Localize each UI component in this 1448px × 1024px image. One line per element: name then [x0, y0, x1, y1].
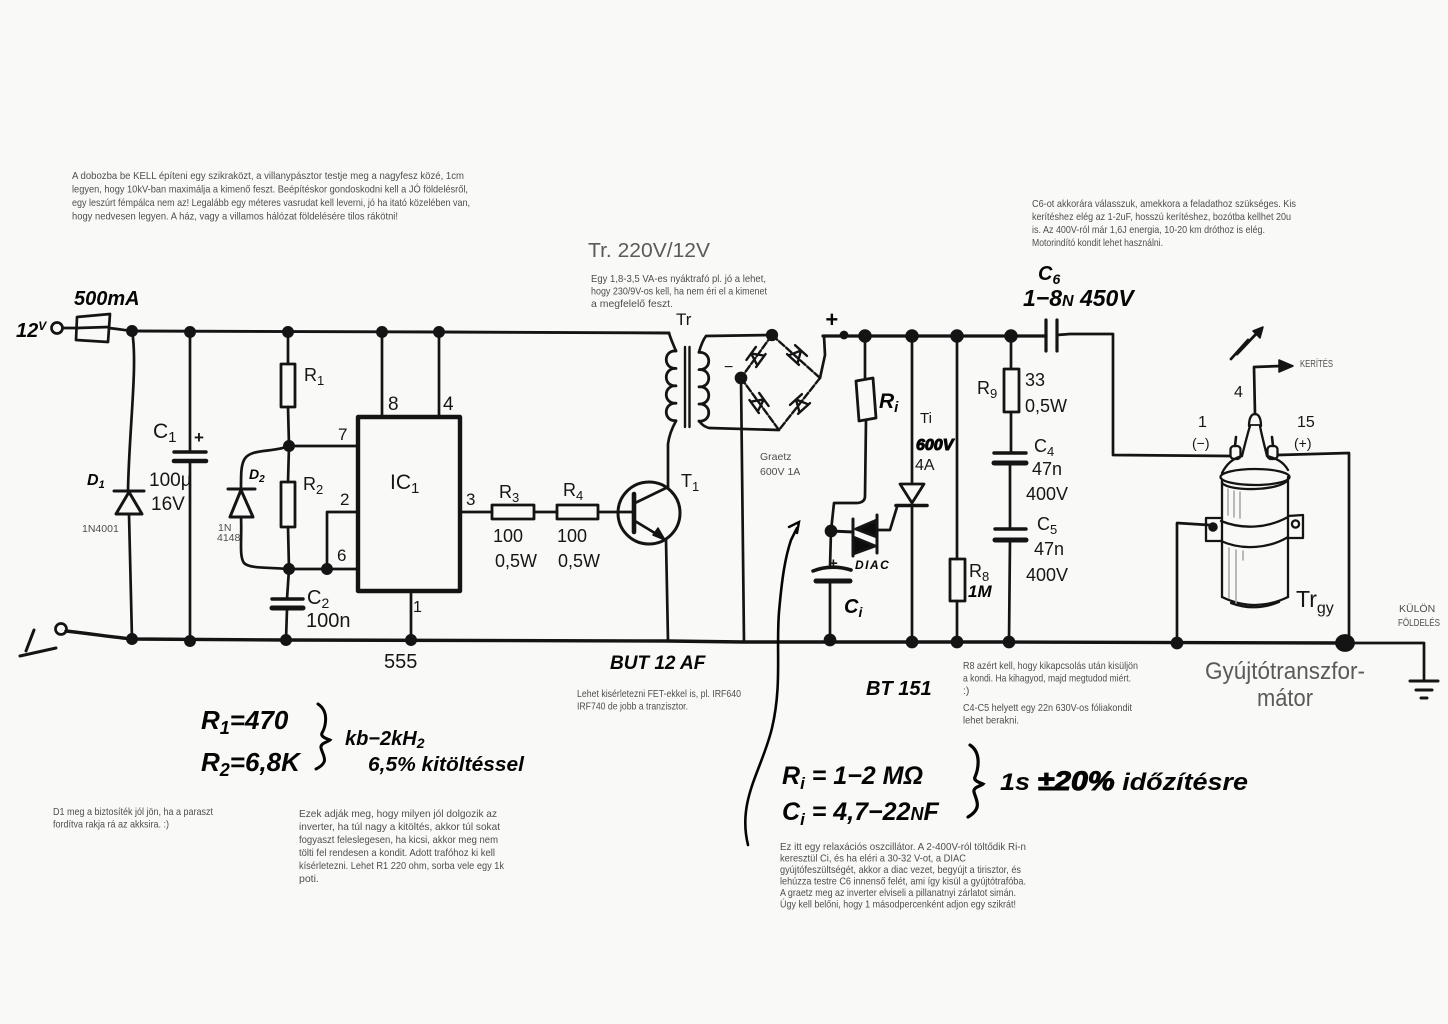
coil terminal stud right	[1272, 437, 1273, 446]
label Gyújtótranszformátor	[1205, 658, 1365, 712]
note: transformer note	[591, 273, 767, 310]
coil dome	[1222, 456, 1288, 473]
transformer Tr secondary coil	[699, 352, 709, 421]
wire C5 bottom lead	[1009, 541, 1010, 642]
node pin2/pin6 junction	[322, 564, 331, 573]
wire T1 collector to transformer	[668, 421, 676, 487]
wire fuse to node A	[109, 328, 132, 331]
wire R9 to C4	[1010, 412, 1013, 452]
capacitor C5	[995, 529, 1026, 540]
svg-text:KERÍTÉS: KERÍTÉS	[1300, 357, 1333, 370]
svg-text:(+): (+)	[1294, 435, 1312, 451]
wire coil pin15 to ground bus	[1278, 453, 1349, 642]
svg-text:15: 15	[1297, 414, 1315, 431]
svg-text:100n: 100n	[306, 610, 351, 632]
node C1 bottom	[185, 636, 194, 645]
svg-text:R8 azért kell, hogy kikapcsolá: R8 azért kell, hogy kikapcsolás után kis…	[963, 660, 1138, 672]
svg-text:555: 555	[384, 651, 417, 673]
svg-text::): :)	[963, 685, 969, 697]
resistor R1	[281, 364, 295, 407]
node bridge minus corner	[736, 373, 746, 383]
op-amp U1: IC1 555 box	[358, 417, 460, 591]
svg-text:Ti: Ti	[920, 410, 932, 427]
coil clamp left ear	[1206, 518, 1221, 541]
svg-text:poti.: poti.	[299, 873, 319, 885]
pointer curve to oscillator	[745, 528, 797, 845]
diode D2 1N4148	[228, 489, 255, 517]
wire coil hv tower to fence arrow	[1254, 366, 1281, 414]
svg-text:A graetz meg az inverter elvis: A graetz meg az inverter elviseli a pill…	[780, 887, 1016, 899]
svg-text:4: 4	[443, 394, 454, 415]
node ground bus left	[127, 634, 136, 643]
diode D1	[114, 491, 144, 514]
svg-text:100: 100	[493, 526, 523, 546]
node pin1 bottom	[406, 635, 415, 644]
svg-text:400V: 400V	[1026, 484, 1068, 504]
svg-text:+: +	[825, 307, 838, 332]
wire R9 top lead	[1010, 336, 1013, 369]
svg-text:A dobozba be KELL építeni egy: A dobozba be KELL építeni egy szikraközt…	[72, 170, 464, 182]
thyristor Ti	[896, 484, 927, 506]
resistor R9	[1004, 369, 1019, 412]
coil hv tower cone	[1242, 426, 1267, 456]
coil clamp band	[1221, 517, 1288, 527]
bridge diode bottom-left	[749, 393, 768, 413]
svg-text:1N4001: 1N4001	[82, 523, 119, 535]
svg-text:legyen, hogy 10kV-ban maximálj: legyen, hogy 10kV-ban maximálja a kimenő…	[72, 183, 468, 196]
svg-text:4148: 4148	[217, 532, 241, 544]
wire DIAC to Ti gate	[877, 507, 897, 530]
node R9 top	[1006, 331, 1017, 342]
svg-text:Tr. 220V/12V: Tr. 220V/12V	[588, 240, 711, 262]
svg-text:FÖLDELÉS: FÖLDELÉS	[1398, 616, 1440, 629]
svg-text:R2=6,8K: R2=6,8K	[201, 747, 302, 780]
node clamp bus junction	[1172, 638, 1182, 648]
node DIAC left junction	[826, 526, 836, 536]
wire C2 top lead	[287, 569, 289, 599]
svg-text:−: −	[724, 359, 733, 376]
coil top rim	[1221, 469, 1290, 485]
bridge rectifier diamond edges	[741, 335, 820, 430]
svg-text:(−): (−)	[1192, 435, 1210, 451]
capacitor C4	[994, 453, 1026, 463]
transistor T1 emitter arrowhead	[653, 528, 665, 540]
spark lightning symbol	[1231, 327, 1263, 359]
svg-text:lehúzza testre C6 innenső felé: lehúzza testre C6 innenső felét, ami így…	[780, 876, 1026, 888]
capacitor Ci	[813, 567, 851, 581]
svg-text:gyújtófeszültségét, akkor a di: gyújtófeszültségét, akkor a diac vezet, …	[780, 864, 1021, 876]
svg-text:47n: 47n	[1032, 459, 1062, 479]
bridge diode top-left	[746, 347, 765, 367]
resistor R4	[557, 505, 598, 519]
wire D1 branch lower	[129, 514, 132, 639]
wire pin 3	[460, 511, 492, 514]
node fuse junction	[127, 326, 136, 335]
note: C6 sizing note	[1032, 198, 1296, 249]
wire C6 to coil pin1	[1057, 334, 1230, 456]
svg-text:Egy 1,8-3,5 VA-es nyáktrafó pl: Egy 1,8-3,5 VA-es nyáktrafó pl. jó a leh…	[591, 273, 766, 285]
svg-text:100µ: 100µ	[149, 470, 192, 491]
wire top bus right section	[823, 334, 1046, 337]
capacitor C1	[174, 452, 206, 461]
wire D1 branch upper	[128, 331, 134, 491]
ground symbol left	[20, 630, 56, 656]
svg-text:33: 33	[1025, 370, 1045, 390]
note: relaxation oscillator note	[780, 841, 1026, 911]
svg-text:1s ±20% időzítésre: 1s ±20% időzítésre	[1000, 766, 1248, 796]
wire blob to right ground	[1352, 643, 1424, 681]
wire C2 bottom lead	[286, 609, 287, 640]
wire Ci top lead	[830, 531, 831, 567]
svg-text:1: 1	[413, 599, 422, 616]
note: D1 fuse note	[53, 806, 213, 831]
label KÜLÖN FÖLDELÉS	[1398, 603, 1440, 629]
svg-text:0,5W: 0,5W	[495, 551, 537, 571]
wire C1 branch upper	[189, 332, 192, 452]
transistor T1 emitter stroke	[635, 521, 663, 538]
resistor R2	[281, 482, 295, 527]
diac D3	[831, 515, 877, 556]
svg-text:0,5W: 0,5W	[558, 551, 600, 571]
svg-text:C6-ot akkorára válasszuk, amek: C6-ot akkorára válasszuk, amekkora a fel…	[1032, 198, 1296, 210]
note: duty-cycle note	[299, 808, 505, 885]
svg-text:fogyaszt feleslegesen, ha kics: fogyaszt feleslegesen, ha kicsi, akkor m…	[299, 834, 498, 846]
svg-text:Graetz: Graetz	[760, 451, 792, 463]
wire clamp to ground bus	[1177, 523, 1209, 643]
note: top-left build note	[72, 170, 470, 223]
svg-text:BT 151: BT 151	[866, 678, 932, 700]
wire secondary top to bridge	[699, 335, 772, 352]
svg-text:Úgy kell belőni, hogy 1 másodp: Úgy kell belőni, hogy 1 másodpercenként …	[780, 898, 1016, 911]
svg-text:6: 6	[337, 546, 346, 565]
svg-text:+: +	[194, 428, 204, 447]
node bridge top corner	[767, 330, 777, 340]
brace left annotation	[316, 704, 330, 769]
coil clamp right ear	[1288, 515, 1303, 538]
svg-text:kerítéshez elég az 1-2uF, hoss: kerítéshez elég az 1-2uF, hosszú kerítés…	[1032, 211, 1291, 223]
wire Ri to DIAC node	[831, 420, 866, 531]
wire D2 upper hook	[241, 446, 289, 489]
wire Ti cathode to ground bus	[911, 506, 914, 642]
wire R2 bottom lead	[288, 527, 289, 569]
bridge diode bottom-right	[790, 394, 810, 414]
bridge diode top-right	[787, 345, 807, 365]
svg-text:D1 meg a biztosíték jól jön, h: D1 meg a biztosíték jól jön, ha a parasz…	[53, 806, 213, 818]
svg-text:a kondi. Ha kihagyod, majd meg: a kondi. Ha kihagyod, majd megtudod miér…	[963, 673, 1131, 685]
svg-text:hogy 230/9V-os kell, ha nem ér: hogy 230/9V-os kell, ha nem éri el a kim…	[591, 286, 767, 298]
node ground terminal	[56, 624, 67, 635]
wire C1 branch lower	[189, 461, 192, 641]
wire R4 to T1 base	[598, 511, 634, 514]
wire bridge minus to ground bus	[741, 378, 744, 642]
node plus junction	[841, 332, 847, 338]
wire pin 7	[289, 445, 358, 448]
svg-text:Motorindító kondit lehet haszn: Motorindító kondit lehet használni.	[1032, 237, 1163, 249]
wire bottom ground bus	[66, 631, 1345, 643]
svg-text:Ez itt egy relaxációs oszcillá: Ez itt egy relaxációs oszcillátor. A 2-4…	[780, 841, 1026, 853]
wire D2 lower hook	[241, 517, 287, 569]
ignition transformer Trgy	[1206, 414, 1303, 607]
wire R3 to R4	[534, 511, 557, 514]
node pin6/R2 junction	[284, 564, 293, 573]
label Graetz 600V 1A	[760, 451, 800, 478]
svg-text:hogy nedvesen legyen. A ház, v: hogy nedvesen legyen. A ház, vagy a vill…	[72, 211, 398, 223]
resistor R3	[492, 505, 534, 519]
wire bridge plus riser	[820, 336, 825, 378]
pointer arrowhead	[789, 522, 799, 533]
svg-text:keresztül Ci, és ha eléri a 30: keresztül Ci, és ha eléri a 30-32 V-ot, …	[780, 853, 966, 865]
wire C4 to C5	[1009, 464, 1012, 528]
transistor T1 collector stroke	[635, 487, 668, 503]
svg-text:+: +	[829, 555, 838, 572]
svg-text:kb−2kH2: kb−2kH2	[345, 728, 425, 751]
node C5 bottom	[1004, 637, 1014, 647]
wire pin 2	[327, 512, 358, 569]
resistor R8	[950, 559, 965, 601]
node Ti bottom	[907, 637, 917, 647]
coil body	[1222, 477, 1288, 597]
svg-text:mátor: mátor	[1257, 685, 1313, 712]
svg-text:16V: 16V	[151, 494, 185, 515]
svg-text:C4-C5 helyett egy 22n 630V-os: C4-C5 helyett egy 22n 630V-os fóliakondi…	[963, 702, 1132, 714]
wire pin 1	[410, 591, 413, 640]
note: R8 purpose note	[963, 660, 1138, 727]
svg-text:6,5% kitöltéssel: 6,5% kitöltéssel	[368, 753, 525, 776]
svg-text:KÜLÖN: KÜLÖN	[1399, 603, 1435, 615]
wire R1 to node7	[288, 407, 289, 446]
node R1 top	[283, 327, 292, 336]
svg-text:400V: 400V	[1026, 565, 1068, 585]
coil shading	[1228, 489, 1243, 603]
svg-text:R1=470: R1=470	[201, 705, 289, 738]
note: FET note	[577, 688, 741, 713]
node pin4 top	[434, 327, 443, 336]
wire R8 top lead	[956, 336, 959, 559]
svg-text:fordítva rakja rá az akksira.: fordítva rakja rá az akksira. :)	[53, 819, 169, 831]
svg-text:a megfelelő feszt.: a megfelelő feszt.	[591, 298, 673, 310]
svg-text:egy leszúrt fémpálca nem az! L: egy leszúrt fémpálca nem az! Legalább eg…	[72, 197, 470, 209]
svg-text:is. Az 400V-ról már 1,6J energ: is. Az 400V-ról már 1,6J energia, 10-20 …	[1032, 224, 1265, 236]
resistor Ri	[856, 378, 876, 421]
svg-text:lehet berakni.: lehet berakni.	[963, 715, 1019, 727]
svg-text:DIAC: DIAC	[855, 558, 890, 572]
svg-text:inverter, ha túl nagy a kitölt: inverter, ha túl nagy a kitöltés, akkor …	[299, 821, 500, 833]
wire secondary bottom to bridge	[699, 421, 779, 430]
ground symbol right	[1410, 681, 1438, 698]
fuse F1 500mA	[76, 314, 110, 342]
transformer Tr core	[685, 347, 690, 427]
node 12V input terminal	[52, 323, 63, 334]
node Ti anode	[907, 331, 918, 342]
transformer Tr primary coil	[666, 351, 676, 421]
wire Ci bottom lead	[829, 582, 832, 640]
wire input to fuse	[63, 327, 78, 330]
svg-text:8: 8	[388, 394, 399, 415]
svg-text:500mA: 500mA	[74, 288, 140, 310]
svg-text:1−8N 450V: 1−8N 450V	[1023, 285, 1135, 311]
node Ci bottom	[825, 635, 835, 645]
wire R2 top lead	[288, 446, 289, 482]
svg-text:IRF740 de jobb a tranzisztor.: IRF740 de jobb a tranzisztor.	[577, 701, 688, 713]
svg-text:100: 100	[557, 526, 587, 546]
wire Ti anode lead	[911, 336, 914, 484]
svg-text:2: 2	[340, 490, 349, 509]
wire top supply bus	[132, 331, 669, 333]
wire R1 top lead	[287, 332, 290, 364]
svg-text:0,5W: 0,5W	[1025, 396, 1067, 416]
capacitor C2	[272, 599, 303, 608]
svg-text:4: 4	[1234, 384, 1243, 401]
svg-text:Lehet kisérletezni FET-ekkel i: Lehet kisérletezni FET-ekkel is, pl. IRF…	[577, 688, 741, 700]
svg-text:3: 3	[466, 490, 475, 509]
svg-text:BUT 12 AF: BUT 12 AF	[610, 653, 707, 674]
wire pin 6	[289, 568, 358, 571]
wire bus to primary top	[669, 333, 676, 351]
svg-text:Tr: Tr	[676, 310, 692, 329]
node C1 top	[185, 327, 194, 336]
svg-text:tölti fel rendesen a kondit. A: tölti fel rendesen a kondit. Adott trafó…	[299, 847, 495, 859]
svg-text:4A: 4A	[915, 457, 935, 474]
wire R8 bottom lead	[956, 601, 959, 642]
node pin7 junction	[284, 441, 293, 450]
fence arrowhead	[1279, 360, 1293, 372]
node Ri top	[860, 331, 871, 342]
svg-text:Gyújtótranszfor-: Gyújtótranszfor-	[1205, 658, 1365, 685]
transistor Q1: T1 circle	[618, 482, 680, 544]
svg-text:Ezek adják meg, hogy milyen jó: Ezek adják meg, hogy milyen jól dolgozik…	[299, 808, 497, 820]
coil terminal stud left	[1235, 437, 1236, 446]
wire Ri top lead	[864, 336, 867, 379]
svg-text:kísérletezni. Lehet R1 220 ohm: kísérletezni. Lehet R1 220 ohm, sorba ve…	[299, 860, 505, 872]
svg-text:600V 1A: 600V 1A	[760, 466, 800, 478]
wire pin 4	[438, 332, 441, 417]
svg-text:1M: 1M	[968, 582, 992, 601]
node coil ground blob	[1337, 636, 1354, 651]
wire T1 emitter to ground bus	[666, 540, 668, 641]
svg-text:600V: 600V	[916, 437, 955, 454]
node R8 top	[952, 331, 963, 342]
capacitor C6	[1046, 320, 1057, 351]
svg-text:7: 7	[338, 425, 347, 444]
svg-text:47n: 47n	[1034, 539, 1064, 559]
svg-text:1: 1	[1198, 414, 1207, 431]
transistor T1 base bar	[632, 494, 637, 532]
node C2 bottom	[281, 635, 290, 644]
node R8 bottom	[952, 637, 962, 647]
brace right annotation	[968, 745, 983, 817]
wire pin 8	[381, 332, 384, 417]
node pin8 top	[377, 327, 386, 336]
